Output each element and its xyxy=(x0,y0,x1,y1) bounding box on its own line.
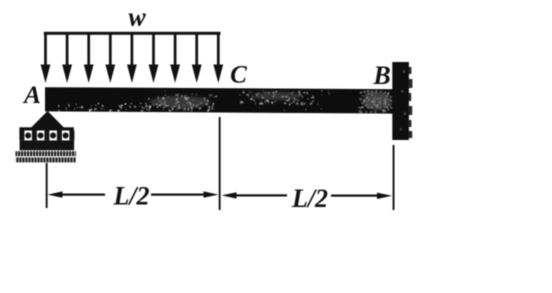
svg-text:C: C xyxy=(230,62,247,89)
svg-text:L/2: L/2 xyxy=(291,184,328,213)
svg-text:w: w xyxy=(128,3,146,32)
svg-text:B: B xyxy=(372,61,390,90)
svg-text:A: A xyxy=(22,80,41,109)
svg-text:L/2: L/2 xyxy=(112,182,149,211)
